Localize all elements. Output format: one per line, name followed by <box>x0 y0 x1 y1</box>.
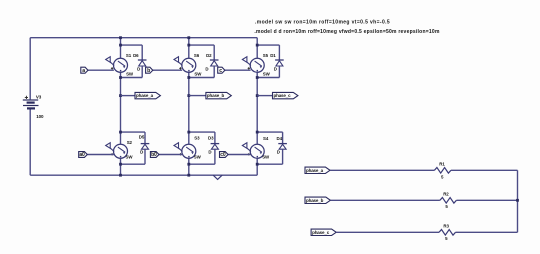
ground <box>213 175 222 179</box>
node tag phase_b <box>206 92 231 98</box>
wire phase_c to R3 <box>336 231 439 233</box>
wire S1 to phase node <box>120 72 122 132</box>
junction phase node 1 <box>119 94 122 97</box>
junction rail S1 <box>119 36 122 39</box>
wire S1 cell bottom node <box>121 77 143 79</box>
junction S4 bottom node <box>256 163 259 166</box>
svg-text:SW: SW <box>262 154 270 159</box>
svg-text:D: D <box>277 149 280 154</box>
wire rail to S5 top <box>256 38 258 59</box>
node tag phase_a <box>135 92 160 98</box>
wire D6 anode drop <box>141 45 143 60</box>
wire phase node to tag phase_a <box>121 95 136 97</box>
node tag a <box>81 67 88 73</box>
switch S2 <box>114 144 128 158</box>
node tag c <box>218 67 225 73</box>
wire D3 cathode drop <box>214 149 216 164</box>
node tag c0 <box>220 152 229 158</box>
wire S6 cell top node <box>189 44 214 46</box>
wire gate a to switch <box>88 69 114 71</box>
svg-text:SW: SW <box>126 71 134 76</box>
wire S2 body drop <box>120 132 122 144</box>
junction S5 bottom node <box>256 76 259 79</box>
junction S3 bottom node <box>187 163 190 166</box>
wire S2 to bottom rail <box>120 158 122 175</box>
svg-text:S5: S5 <box>263 53 269 58</box>
resistor R1 <box>434 168 451 174</box>
svg-text:b0: b0 <box>151 152 157 158</box>
wire rail to S1 top <box>120 38 122 59</box>
diode D2 <box>210 59 219 61</box>
junction S1 top node <box>119 44 122 47</box>
junction bottom rail S2 <box>119 174 122 177</box>
wire phase_a to R1 <box>330 169 434 171</box>
svg-text:a: a <box>82 68 85 74</box>
svg-text:D1: D1 <box>270 53 276 58</box>
wire phase_b to R2 <box>330 199 440 201</box>
wire top rail <box>30 37 257 39</box>
wire S4 cell bottom node <box>257 163 282 165</box>
svg-text:D4: D4 <box>277 136 283 141</box>
wire bottom rail <box>30 174 257 176</box>
resistor R3 <box>439 230 456 236</box>
svg-text:R3: R3 <box>443 224 449 229</box>
wire S4 to bottom rail <box>256 158 258 175</box>
junction S2 top node <box>119 131 122 134</box>
diode D1 <box>275 59 284 61</box>
wire S5 cell bottom node <box>257 77 279 79</box>
wire gate b0 to switch <box>159 154 182 156</box>
wire gate c0 to switch <box>228 154 251 156</box>
svg-text:S4: S4 <box>263 136 269 141</box>
svg-text:D: D <box>274 66 277 71</box>
wire D4 anode drop <box>282 132 284 144</box>
junction S6 top node <box>187 44 190 47</box>
svg-text:.model d d ron=10m roff=10meg: .model d d ron=10m roff=10meg vfwd=0.5 e… <box>254 29 440 35</box>
junction S2 bottom node <box>119 163 122 166</box>
junction phase node 3 <box>256 94 259 97</box>
svg-text:S6: S6 <box>194 53 200 58</box>
wire D5 cathode drop <box>144 149 146 164</box>
node tag phase_b load <box>305 197 330 203</box>
svg-text:a0: a0 <box>79 152 85 158</box>
svg-text:D5: D5 <box>139 135 145 140</box>
svg-text:D3: D3 <box>208 136 214 141</box>
svg-text:c: c <box>219 68 222 74</box>
node tag phase_a load <box>305 167 330 173</box>
junction bottom rail S3 <box>187 174 190 177</box>
switch S4 <box>250 144 264 158</box>
svg-text:S3: S3 <box>194 136 200 141</box>
wire S4 cell top node <box>257 131 282 133</box>
svg-text:SW: SW <box>194 71 202 76</box>
svg-text:S1: S1 <box>126 53 132 58</box>
node tag b0 <box>150 152 159 158</box>
svg-text:phase_a: phase_a <box>136 93 154 98</box>
svg-text:SW: SW <box>263 71 271 76</box>
junction S4 top node <box>256 131 259 134</box>
svg-text:phase_c: phase_c <box>312 230 330 235</box>
svg-text:SW: SW <box>126 154 134 159</box>
wire D4 cathode drop <box>282 149 284 164</box>
node tag b <box>146 67 153 73</box>
resistor R2 <box>440 198 457 204</box>
wire neutral vertical <box>517 170 519 232</box>
svg-text:D: D <box>137 66 140 71</box>
wire gate a0 to switch <box>87 154 114 156</box>
wire S2 cell top node <box>121 131 146 133</box>
svg-text:phase_b: phase_b <box>306 198 324 203</box>
switch S6 <box>182 58 196 72</box>
wire S6 to phase node <box>188 72 190 132</box>
wire S3 cell bottom node <box>189 163 215 165</box>
junction neutral phase_b <box>516 199 519 202</box>
wire D1 anode drop <box>278 45 280 60</box>
svg-text:D: D <box>205 66 208 71</box>
svg-text:R2: R2 <box>443 191 449 196</box>
svg-text:D: D <box>140 149 143 154</box>
wire phase node to tag phase_b <box>189 95 206 97</box>
wire gate b to switch <box>153 69 182 71</box>
junction S6 bottom node <box>187 76 190 79</box>
wire phase node to tag phase_c <box>257 95 272 97</box>
diode D3 <box>211 143 220 145</box>
diode D4 <box>278 143 287 145</box>
svg-text:R1: R1 <box>439 161 445 166</box>
wire S4 body drop <box>256 132 258 144</box>
svg-text:phase_c: phase_c <box>274 93 292 98</box>
wire S3 to bottom rail <box>188 158 190 175</box>
node tag a0 <box>79 152 88 158</box>
wire D6 cathode drop <box>141 66 143 78</box>
diode D5 <box>141 143 150 145</box>
svg-text:V3: V3 <box>36 94 42 99</box>
wire R1 to neutral <box>451 169 518 171</box>
wire R3 to neutral <box>456 231 518 233</box>
junction S1 bottom node <box>119 76 122 79</box>
junction phase node 2 <box>187 94 190 97</box>
svg-text:SW: SW <box>194 154 202 159</box>
wire battery top drop <box>29 38 31 100</box>
wire D3 anode drop <box>214 132 216 144</box>
svg-text:D6: D6 <box>133 53 139 58</box>
junction S5 top node <box>256 44 259 47</box>
svg-text:c0: c0 <box>220 152 226 158</box>
wire S5 to phase node <box>256 72 258 132</box>
svg-text:D: D <box>208 149 211 154</box>
wire R2 to neutral <box>456 199 517 201</box>
switch S5 <box>250 58 264 72</box>
wire S6 cell bottom node <box>189 77 214 79</box>
wire gate c to switch <box>225 69 251 71</box>
wire rail to S6 top <box>188 38 190 59</box>
wire S3 cell top node <box>189 131 215 133</box>
svg-text:D2: D2 <box>206 53 212 58</box>
node tag phase_c load <box>311 229 336 235</box>
svg-text:b: b <box>147 68 150 74</box>
wire D5 anode drop <box>144 132 146 144</box>
wire S2 cell bottom node <box>121 163 146 165</box>
wire D2 cathode drop <box>213 66 215 78</box>
wire battery bottom drop <box>29 109 31 175</box>
svg-text:phase_b: phase_b <box>207 93 225 98</box>
svg-text:phase_a: phase_a <box>306 168 324 173</box>
diode D6 <box>138 59 147 61</box>
svg-text:S2: S2 <box>127 140 133 145</box>
wire S1 cell top node <box>121 44 143 46</box>
wire S5 cell top node <box>257 44 279 46</box>
switch S1 <box>114 58 128 72</box>
junction S3 top node <box>187 131 190 134</box>
switch S3 <box>182 144 196 158</box>
node tag phase_c <box>273 92 298 98</box>
wire D2 anode drop <box>213 45 215 60</box>
junction rail S6 <box>187 36 190 39</box>
svg-text:100: 100 <box>36 114 44 119</box>
voltage source V3 battery <box>23 96 39 109</box>
wire D1 cathode drop <box>278 66 280 78</box>
svg-text:.model sw sw ron=10m roff=10me: .model sw sw ron=10m roff=10meg vt=0.5 v… <box>255 19 390 25</box>
wire S3 body drop <box>188 132 190 144</box>
